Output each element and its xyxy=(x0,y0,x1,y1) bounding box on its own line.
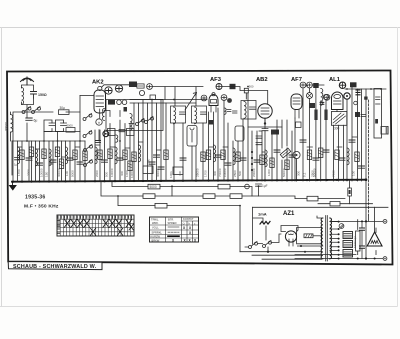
svg-text:300: 300 xyxy=(213,171,217,176)
svg-text:30000: 30000 xyxy=(57,168,61,177)
osc coil lower xyxy=(116,135,118,142)
meter coil zigzag xyxy=(260,222,270,225)
svg-text:1700: 1700 xyxy=(204,170,208,177)
cap AF3 under2 xyxy=(233,111,238,113)
tall indicator box xyxy=(187,126,197,147)
box 3000 upper xyxy=(66,128,75,133)
switch dots AB2 xyxy=(251,151,253,171)
secondary load box 3 xyxy=(343,250,353,258)
capacitor AL1 2 xyxy=(349,140,355,142)
resistor band 1 xyxy=(20,150,24,160)
svg-text:500: 500 xyxy=(238,171,242,176)
rotated value labels left band xyxy=(17,168,75,177)
trimmer mid xyxy=(147,84,153,90)
junction dot power xyxy=(267,251,269,253)
svg-text:1000: 1000 xyxy=(125,170,129,177)
osc circle a xyxy=(117,100,122,105)
capacitor 6u xyxy=(26,118,32,120)
capacitor AL1 3 xyxy=(359,166,365,168)
tube AL1 envelope xyxy=(332,92,344,110)
wire top right bus xyxy=(345,88,386,90)
capacitor band 5 xyxy=(77,162,83,164)
indicator inner xyxy=(190,128,194,142)
svg-text:AL1: AL1 xyxy=(329,77,341,83)
osc dark circle dot xyxy=(105,133,107,135)
wire AB2 under xyxy=(248,118,282,181)
cap box mid right xyxy=(361,115,366,117)
meter circle hatch xyxy=(340,225,343,229)
switch contact column 2 xyxy=(83,130,92,137)
svg-text:300: 300 xyxy=(297,171,301,176)
svg-text:2500: 2500 xyxy=(233,170,237,177)
box small far right xyxy=(381,127,388,135)
box GW AK2 xyxy=(129,82,137,88)
resistor AL1 2 xyxy=(355,152,359,162)
tall box inner dashes xyxy=(376,97,381,104)
wire long risers far right xyxy=(366,89,375,259)
resistor power hatched xyxy=(304,234,313,238)
svg-text:300: 300 xyxy=(120,171,124,176)
svg-text:100: 100 xyxy=(352,171,356,176)
tube AF3 inner box xyxy=(211,100,217,104)
mid junction dots xyxy=(26,85,382,207)
box 4750 rail3 xyxy=(143,194,155,199)
dark box right column xyxy=(355,112,360,117)
blob AB2 lead xyxy=(264,122,266,124)
capacitor tank B xyxy=(61,123,67,125)
transformer secondary winding xyxy=(330,218,332,259)
junction dots power rails xyxy=(357,220,376,259)
resistor below bus right xyxy=(348,188,352,196)
svg-text:1935-36: 1935-36 xyxy=(25,195,45,201)
svg-text:SPRRKL: SPRRKL xyxy=(152,230,163,234)
resistor IF riser xyxy=(201,152,205,162)
wire long riser x80 xyxy=(79,96,81,182)
trimmer cap AK2 b xyxy=(115,85,122,92)
wire LC bottoms xyxy=(44,131,80,133)
tube AK2 envelope xyxy=(94,90,106,113)
box GW mid xyxy=(137,84,144,88)
switch power 2 xyxy=(263,240,272,247)
capacitor AF7 1 xyxy=(300,140,306,142)
tube AF7 electrodes xyxy=(293,98,300,118)
svg-text:SPRED: SPRED xyxy=(168,221,177,225)
trimmer cap AK2 a xyxy=(105,87,112,94)
capacitor AF3 2 xyxy=(225,163,231,165)
wire resistor below bus xyxy=(349,180,351,204)
filter cap lower xyxy=(360,246,365,248)
power section top line xyxy=(253,206,389,208)
box 30 mid xyxy=(173,167,183,175)
resistor 30 box xyxy=(59,110,70,115)
box 1150 rail3 xyxy=(203,194,215,199)
coil AB2 1 xyxy=(265,150,267,167)
trimmer AL1 left xyxy=(324,94,330,100)
svg-text:M.F • 350 KHz: M.F • 350 KHz xyxy=(24,204,59,210)
svg-text:1mA: 1mA xyxy=(258,212,267,217)
svg-text:500: 500 xyxy=(249,85,254,89)
secondary load box 2 hatch xyxy=(344,242,352,246)
scan page left edge xyxy=(1,28,3,307)
resistor power hatch xyxy=(306,234,313,237)
resistor AF3 1 xyxy=(206,150,210,160)
coil AL1 1 xyxy=(347,148,349,165)
capacitor AB2 stack 1 xyxy=(256,136,262,138)
wire resistor to transformer xyxy=(313,235,322,237)
coil AF7 vert xyxy=(321,89,323,106)
ground bus main xyxy=(12,180,366,182)
wire top link AF7-AL1 xyxy=(306,84,324,86)
terminal right top xyxy=(383,220,387,224)
svg-text:10000: 10000 xyxy=(110,168,114,177)
tall box dark blob xyxy=(375,119,378,124)
electrolytic leads xyxy=(357,220,359,255)
wire risers IF area xyxy=(174,123,203,181)
capacitor AF7 2 xyxy=(313,158,319,160)
antenna symbol xyxy=(21,77,34,85)
wire linkage lower xyxy=(368,215,370,221)
AZ1 top loop xyxy=(281,226,298,232)
osc box 3 xyxy=(108,129,116,136)
box AF7 dark xyxy=(313,83,319,88)
speaker leads xyxy=(375,228,377,255)
osc cap 2 xyxy=(119,130,125,132)
tube AF3 envelope xyxy=(209,95,218,106)
svg-text:30000: 30000 xyxy=(156,168,160,177)
tube AF3 legs xyxy=(211,106,216,113)
svg-text:BRKW: BRKW xyxy=(152,238,160,242)
wire horizontal pair y99-103 xyxy=(130,100,207,104)
svg-text:AB2: AB2 xyxy=(256,77,268,83)
svg-text:150: 150 xyxy=(45,172,49,177)
secondary load box 1 xyxy=(343,232,353,239)
transformer secondary taps xyxy=(330,222,339,259)
tube AL1 inner oval xyxy=(334,95,341,99)
wire top link AF3-AB2 xyxy=(222,87,268,104)
switch position grid table xyxy=(57,215,134,236)
capacitor far right xyxy=(386,127,388,135)
resistor AB2 1 xyxy=(260,155,264,165)
svg-text:TRWL.: TRWL. xyxy=(151,218,159,222)
IF transformer B left coil xyxy=(195,107,197,124)
meter circle AF7 cross xyxy=(308,94,312,98)
coil AK2 stage 1 xyxy=(95,147,97,164)
osc dark blob xyxy=(124,107,128,112)
rail 3 below bus xyxy=(101,182,295,199)
svg-text:10000: 10000 xyxy=(223,168,227,177)
switch contact column 1 xyxy=(83,113,92,120)
antenna tank loop wire xyxy=(22,85,34,112)
resistor band 5 xyxy=(59,159,63,169)
resistor AK2 stage 3 xyxy=(123,150,127,160)
resistor band 6 xyxy=(73,150,77,160)
coil band 3 xyxy=(49,149,51,166)
svg-text:2000: 2000 xyxy=(95,170,99,177)
resistor AF7 dark 1 xyxy=(314,110,317,121)
svg-text:1000: 1000 xyxy=(267,169,271,176)
transformer primary taps xyxy=(240,216,323,259)
filter cap upper xyxy=(360,228,365,230)
transformer primary winding xyxy=(321,218,323,259)
trimmer cap AK2 c xyxy=(139,90,144,95)
capacitor AF3 1 xyxy=(215,155,221,157)
svg-text:2500: 2500 xyxy=(311,170,315,177)
osc circle b xyxy=(122,100,127,105)
title box xyxy=(8,262,102,270)
output transformer diagonal coil xyxy=(333,113,346,124)
svg-text:VOLL: VOLL xyxy=(152,226,159,230)
capacitor AB2 1 xyxy=(254,160,260,162)
svg-text:1001: 1001 xyxy=(169,171,173,178)
box SW rail4 xyxy=(155,203,167,208)
tube AZ1 filaments xyxy=(289,234,294,242)
wire risers AB2 stage xyxy=(252,120,277,181)
svg-text:500: 500 xyxy=(105,172,109,177)
svg-text:KURZW: KURZW xyxy=(151,234,161,238)
osc switch xyxy=(136,118,145,125)
dial lamp circle xyxy=(293,151,300,158)
secondary load box 1 hatch xyxy=(344,233,352,237)
trimmer AF3 top cross xyxy=(217,84,221,88)
tube base circle 2 xyxy=(96,119,102,125)
svg-text:30μ: 30μ xyxy=(60,106,66,110)
trimmer AL1 right dark xyxy=(344,93,350,99)
svg-text:KONTKT: KONTKT xyxy=(183,217,194,221)
svg-text:25000: 25000 xyxy=(196,168,200,177)
capacitor AB2 stack 2 xyxy=(256,143,262,145)
cap left of shield xyxy=(96,141,101,143)
coil band 2 xyxy=(36,149,38,166)
bus junction dots xyxy=(12,178,367,182)
trimmer AF7 b xyxy=(307,82,313,88)
AZ1 bottom leads xyxy=(289,242,293,246)
capacitor AB2 under xyxy=(262,129,268,131)
secondary load box 3 hatch xyxy=(344,252,352,256)
osc coil mid xyxy=(130,114,132,131)
wire risers AF3 stage xyxy=(209,93,249,181)
rotated labels texture extra xyxy=(130,159,356,178)
rotated labels AK2 stage xyxy=(95,168,129,177)
power section left drop xyxy=(253,207,264,244)
svg-text:400: 400 xyxy=(178,171,182,176)
IF transformer C cap xyxy=(250,107,256,109)
box AF3 top dark xyxy=(230,84,236,89)
rail 4 below bus xyxy=(118,196,240,252)
coil band 1 xyxy=(18,147,20,164)
speaker triangle xyxy=(367,232,382,246)
resistor AK2 stage 1 xyxy=(98,150,102,160)
coil cap pair AF3 xyxy=(225,108,232,114)
resistor band 4 xyxy=(55,147,59,157)
IF transformer B cap xyxy=(201,112,207,114)
capacitor band 3 xyxy=(50,160,56,162)
coil AF3 2 xyxy=(233,148,235,165)
transformer core xyxy=(326,216,328,262)
resistor band 3 xyxy=(42,149,46,159)
capacitor 1uF rail2 xyxy=(256,184,262,196)
svg-text:BTR.: BTR. xyxy=(168,218,174,222)
box 750 rail3 xyxy=(230,194,242,199)
resistor band 7 xyxy=(83,151,87,161)
dark caps right column xyxy=(356,90,360,95)
legend header text xyxy=(151,217,197,242)
IF transformer A cap xyxy=(180,112,186,114)
box AF3 under xyxy=(209,120,213,125)
svg-text:AZ1: AZ1 xyxy=(283,211,295,217)
tube AK2 electrodes xyxy=(96,96,104,118)
resistor AF7 2 xyxy=(319,148,323,158)
coupling arrow diagonal xyxy=(185,93,197,111)
rail 3b right xyxy=(295,198,345,200)
capacitor mid 1 xyxy=(154,155,160,157)
svg-text:250: 250 xyxy=(147,159,151,164)
box 62k rail2 xyxy=(218,184,230,189)
capacitor antenna 150 xyxy=(31,92,37,99)
IF transformer A left coil xyxy=(174,107,176,124)
scan page bottom edge xyxy=(0,306,397,308)
tube AB2 electrodes xyxy=(261,108,269,122)
capacitor 1u left xyxy=(15,158,20,160)
capacitor AK2 stage 2 xyxy=(117,158,123,160)
resistor AK2 stage 4 xyxy=(128,161,132,171)
svg-text:5000: 5000 xyxy=(150,185,157,189)
tube AL1 electrodes xyxy=(334,101,342,112)
capacitor band 2 xyxy=(37,163,43,165)
ground symbol arrow xyxy=(10,182,17,190)
capacitor AL1 1 xyxy=(339,158,345,160)
capacitor AK2 stage 1 xyxy=(102,160,108,162)
tall coil box far right xyxy=(374,89,382,139)
switch contact ant 1 xyxy=(22,106,31,113)
osc box 4 xyxy=(127,129,135,136)
wire jumpers texture left xyxy=(18,137,358,164)
box rail5 xyxy=(330,202,340,206)
wire antenna switch row xyxy=(13,112,80,181)
box AF7 bottom xyxy=(296,122,302,128)
tube AZ1 envelope xyxy=(285,231,296,242)
switch contact column 4 xyxy=(84,159,93,166)
IF transformer A outline xyxy=(171,106,186,123)
coil L2 left tall xyxy=(11,115,13,133)
box GW rail3b xyxy=(307,196,318,201)
svg-text:7000: 7000 xyxy=(332,170,336,177)
svg-text:1μF: 1μF xyxy=(262,184,268,188)
trimmer AL1 top dark xyxy=(339,82,345,88)
tube AB2 envelope xyxy=(258,104,272,118)
wire power top right xyxy=(295,221,383,258)
potentiometer diagonal xyxy=(280,148,290,158)
IF transformer C outline xyxy=(241,101,256,120)
terminal right bottom xyxy=(383,257,387,261)
filter cap wire xyxy=(361,221,363,258)
tube AK2 top cap xyxy=(98,86,102,90)
rail 2 below bus xyxy=(112,182,252,196)
box small osc right xyxy=(150,95,156,100)
resistor det 1 xyxy=(285,160,289,170)
capacitor mid 2 xyxy=(158,167,164,169)
schematic border frame xyxy=(7,71,393,265)
wire risers detector xyxy=(282,120,297,181)
wire AK2 top cap link xyxy=(102,85,130,88)
resistor AF7 1 xyxy=(307,150,311,160)
switch power 1 xyxy=(249,241,258,248)
scan page top edge xyxy=(0,27,400,29)
svg-text:5000: 5000 xyxy=(71,170,75,177)
scan page right edge xyxy=(397,28,399,307)
capacitor det 1 xyxy=(289,155,295,157)
capacitor AF7 3 xyxy=(323,150,329,152)
osc dark circle xyxy=(103,131,109,137)
resistor below bus right core xyxy=(349,190,351,194)
wire risers left band xyxy=(12,132,85,182)
wire osc links xyxy=(99,111,134,142)
wire risers AL1 stage xyxy=(334,87,362,181)
trimmer AF7 a xyxy=(300,82,306,88)
legend line samples xyxy=(168,226,179,228)
coil L1 antenna xyxy=(22,88,24,105)
grid X marks xyxy=(58,216,134,235)
trimmer AF3 b xyxy=(221,95,227,101)
rotated labels AF7 stage xyxy=(303,168,317,177)
resistor AF3 3 xyxy=(236,152,240,162)
coil AK2 stage 2 xyxy=(115,147,117,164)
switch contact ant 2 xyxy=(32,106,41,113)
box AB2 top small xyxy=(244,88,248,93)
meter circle rail2 xyxy=(245,184,250,189)
osc dark box on shield xyxy=(108,100,115,105)
resistor AK2 stage 2 xyxy=(108,149,112,159)
meter circle AF7 xyxy=(307,93,313,99)
capacitor tank A xyxy=(49,123,55,125)
resistor AF7 dark 2 xyxy=(324,110,327,121)
legend X marks xyxy=(172,226,197,243)
capacitor IF riser xyxy=(180,158,186,160)
LC pair tank B xyxy=(56,120,64,132)
resistor mid 2 xyxy=(164,150,168,160)
power bottom junction dots left xyxy=(300,245,306,253)
tall box AF3 xyxy=(235,126,244,141)
rail 5 right xyxy=(318,203,373,205)
svg-text:150Ω: 150Ω xyxy=(38,93,47,97)
capacitor AB2 2 xyxy=(274,150,280,152)
switch contact column 3 xyxy=(84,144,93,151)
speaker coil inside xyxy=(371,241,378,244)
capacitor band 1 xyxy=(26,158,32,160)
svg-text:SCHAUB - SCHWARZWALD W.: SCHAUB - SCHWARZWALD W. xyxy=(13,264,97,270)
svg-text:30000: 30000 xyxy=(5,122,9,131)
capacitor band 4 xyxy=(67,158,73,160)
box AL1 top dark xyxy=(350,82,357,87)
resistor mid 1 xyxy=(132,152,136,162)
coil AF3 1 xyxy=(214,145,216,162)
terminal right bottom dot xyxy=(384,258,385,259)
output transformer loop xyxy=(331,112,346,126)
svg-text:100: 100 xyxy=(65,171,69,176)
box AF7 dark 2 xyxy=(309,103,315,108)
svg-text:50000: 50000 xyxy=(282,168,286,177)
switch column AB2 xyxy=(251,150,253,172)
meter circle transformer xyxy=(339,224,344,229)
capacitor mid 3 xyxy=(149,162,155,164)
svg-text:6μ: 6μ xyxy=(34,119,38,123)
svg-text:0,1: 0,1 xyxy=(303,172,307,177)
svg-text:Ω: Ω xyxy=(183,222,185,225)
dial lamp dot xyxy=(296,154,298,156)
wire risers AF7 stage xyxy=(295,88,326,181)
osc coil left xyxy=(103,109,105,121)
wire top mid link xyxy=(152,87,203,107)
tube AF3 top nub xyxy=(212,93,215,96)
